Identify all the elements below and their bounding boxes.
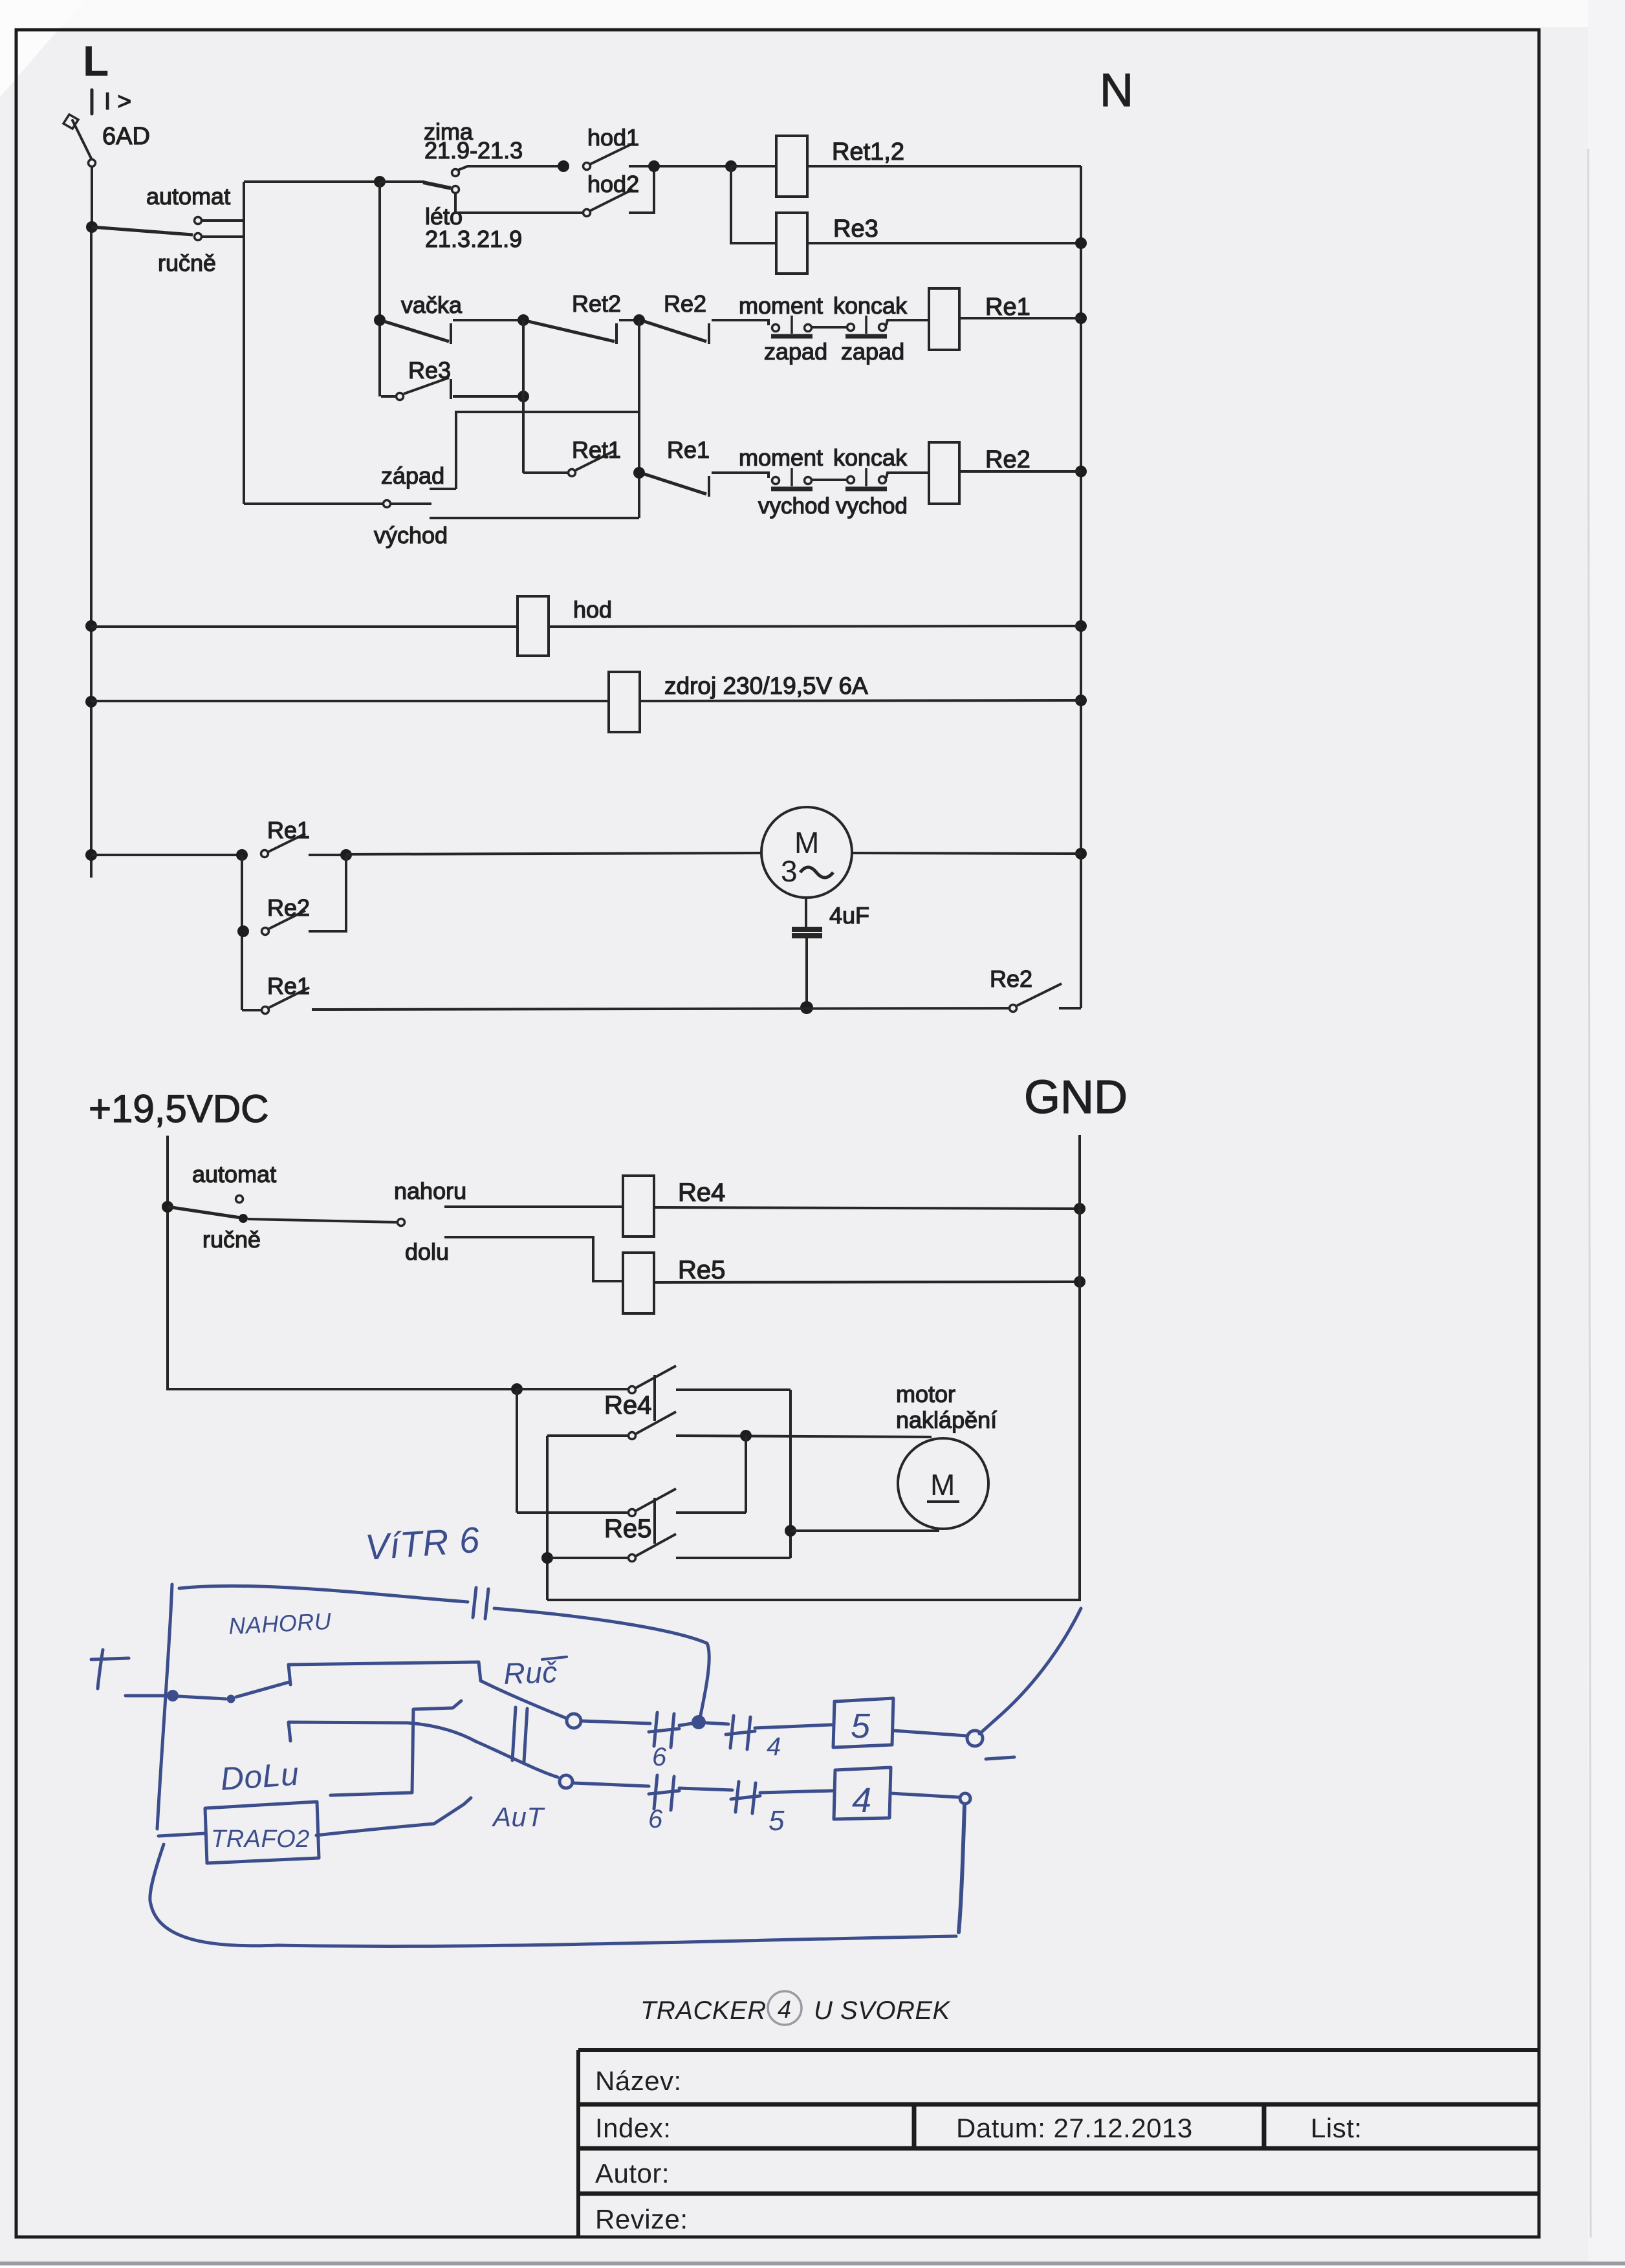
breaker Q1 6AD: [63, 90, 96, 167]
button moment zapad: [772, 325, 780, 332]
wire Re2 coil to N: [959, 470, 1081, 473]
svg-text:Re5: Re5: [604, 1515, 651, 1543]
svg-text:Re1: Re1: [985, 294, 1031, 321]
svg-text:DoLu: DoLu: [219, 1756, 300, 1797]
svg-text:3: 3: [781, 854, 798, 888]
wire blue upper bracket: [289, 1662, 481, 1685]
svg-text:Re2: Re2: [985, 446, 1031, 473]
wire vacka out: [453, 319, 523, 321]
svg-text:vychod: vychod: [836, 493, 908, 519]
wire zima to hod1: [458, 166, 563, 170]
transformer blue coupling bars: [512, 1707, 527, 1762]
wire blue lower row: [573, 1783, 649, 1786]
svg-text:Re3: Re3: [833, 215, 878, 243]
svg-text:Re2: Re2: [990, 966, 1032, 992]
relay blue box 4: [834, 1767, 891, 1819]
button koncak vychod: [847, 477, 855, 484]
svg-text:Ruč: Ruč: [503, 1655, 558, 1690]
relay coil Ret1,2: [776, 136, 807, 197]
motor row: [85, 849, 97, 861]
wire leto to hod2: [455, 193, 583, 213]
svg-text:M: M: [794, 826, 820, 859]
svg-text:Název:: Název:: [595, 2066, 682, 2096]
svg-text:4uF: 4uF: [829, 902, 869, 929]
svg-text:Re1: Re1: [267, 817, 310, 843]
switch automat/rucne (DC selector): [162, 1201, 173, 1213]
wire blue main feeder: [125, 1694, 169, 1698]
wire rucne contact to bus: [202, 235, 244, 238]
switch Re5 contact pair: [516, 1389, 518, 1513]
wire blue zigzag middle: [331, 1701, 461, 1795]
svg-text:zapad: zapad: [841, 338, 904, 365]
wire zapad target: [430, 488, 456, 490]
svg-text:Re5: Re5: [678, 1256, 725, 1284]
title block: [578, 2050, 1539, 2237]
wire Re3 coil to N rail: [807, 242, 1081, 244]
svg-text:Re3: Re3: [408, 357, 451, 383]
switch Re3 contact: [378, 393, 381, 396]
svg-text:5: 5: [769, 1805, 785, 1837]
svg-text:koncak: koncak: [833, 444, 908, 471]
wire GND rail: [1078, 1135, 1081, 1601]
relay blue trafo box: [205, 1802, 319, 1863]
switch Re2 bottom right contact: [1010, 1005, 1017, 1012]
wire Re4 lower in: [547, 1434, 628, 1437]
svg-text:Re2: Re2: [664, 290, 706, 317]
svg-text:21.3.21.9: 21.3.21.9: [425, 226, 522, 252]
svg-text:zapad: zapad: [764, 338, 827, 365]
svg-text:Re2: Re2: [267, 894, 310, 921]
svg-text:východ: východ: [374, 522, 448, 548]
svg-text:Re1: Re1: [267, 973, 310, 999]
svg-text:6AD: 6AD: [102, 123, 150, 150]
svg-text:automat: automat: [146, 183, 230, 210]
text blue labels: [211, 1519, 872, 1853]
svg-text:Revize:: Revize:: [595, 2204, 688, 2234]
switch blue ruc contact: [567, 1714, 581, 1728]
svg-text:Re4: Re4: [678, 1178, 725, 1207]
wire blue descender: [959, 1805, 965, 1932]
wire N rail: [1080, 166, 1082, 1008]
switch automat/rucne (AC selector): [86, 221, 98, 233]
wire blue upper row contact 4: [706, 1723, 728, 1724]
svg-text:hod1: hod1: [587, 124, 639, 151]
svg-text:Ret1: Ret1: [572, 437, 621, 463]
relay coil Re5: [623, 1253, 654, 1313]
wire Re5 lower in: [546, 1436, 549, 1600]
svg-text:nahoru: nahoru: [394, 1178, 466, 1204]
wire blue bottom loop: [150, 1844, 956, 1946]
switch hod1: [558, 160, 569, 172]
svg-text:moment: moment: [739, 444, 823, 471]
svg-text:TRACKER: TRACKER: [640, 1996, 767, 2025]
wire to Re1 coil: [886, 320, 929, 325]
text pencil note: [640, 1991, 952, 2025]
wire Ret12 coil to N rail: [807, 165, 1081, 167]
wire motor to N: [852, 853, 1081, 854]
switch Re1 contact row2: [644, 474, 706, 494]
svg-text:GND: GND: [1024, 1072, 1128, 1123]
node blue plus: [91, 1650, 129, 1689]
svg-text:L: L: [83, 37, 109, 85]
wire automat contact to bus: [202, 219, 244, 222]
svg-text:4: 4: [852, 1781, 872, 1820]
button koncak zapad: [847, 324, 855, 331]
svg-text:ručně: ručně: [202, 1226, 261, 1253]
svg-text:zdroj 230/19,5V 6A: zdroj 230/19,5V 6A: [664, 673, 868, 699]
switch zima/leto selector: [374, 176, 386, 188]
svg-text:6: 6: [648, 1805, 663, 1833]
wire bottom return: [312, 1008, 1009, 1010]
svg-text:dolu: dolu: [405, 1238, 449, 1265]
svg-text:U SVOREK: U SVOREK: [814, 1996, 952, 2025]
wire to Ret12 coil: [731, 165, 776, 167]
wire branch down to Re3 coil: [731, 166, 776, 243]
svg-text:21.9-21.3: 21.9-21.3: [424, 137, 523, 164]
node junction to coils: [725, 160, 737, 172]
wire vertical bus x377: [243, 182, 245, 504]
wire DC plus rail: [168, 1136, 517, 1389]
svg-text:ručně: ručně: [158, 250, 216, 276]
wire top feeder to zima junction: [244, 180, 380, 183]
switch Re4 contact pair: [511, 1383, 523, 1395]
svg-text:západ: západ: [381, 462, 444, 489]
svg-text:TRAFO2: TRAFO2: [211, 1826, 310, 1853]
svg-text:M: M: [930, 1468, 955, 1502]
wire blue top line with coupling marks: [179, 1586, 468, 1602]
svg-text:+19,5VDC: +19,5VDC: [89, 1087, 269, 1130]
switch zapad/vychod selector: [244, 502, 383, 505]
relay coil Re3: [776, 213, 807, 274]
wire bus x374 down: [241, 855, 243, 1010]
svg-text:moment: moment: [739, 292, 823, 319]
wire Re1 coil to N: [959, 317, 1081, 319]
svg-text:NAHORU: NAHORU: [228, 1608, 332, 1639]
wire bus x809 vertical: [522, 320, 525, 473]
relay coil Re1: [929, 288, 959, 350]
svg-text:I >: I >: [104, 88, 131, 114]
node blue junction dot: [692, 1715, 706, 1729]
svg-text:Ret1,2: Ret1,2: [832, 138, 904, 166]
svg-text:vychod: vychod: [758, 493, 830, 519]
svg-text:5: 5: [851, 1707, 871, 1745]
svg-text:6: 6: [652, 1743, 667, 1771]
switch Re1 bottom contact: [242, 1009, 261, 1011]
svg-text:naklápění: naklápění: [896, 1407, 997, 1433]
switch blue aut contact: [560, 1775, 573, 1788]
switch Re2 contact: [644, 321, 706, 341]
svg-text:Ret2: Ret2: [572, 290, 621, 317]
svg-text:List:: List:: [1311, 2113, 1362, 2143]
svg-text:Autor:: Autor:: [595, 2158, 670, 2188]
wire Re4 upper out vertical: [789, 1390, 792, 1558]
svg-text:Re1: Re1: [667, 437, 710, 463]
wire motor top bus: [745, 1436, 747, 1513]
capacitor 4uF: [805, 898, 807, 927]
svg-text:hod2: hod2: [587, 171, 639, 197]
svg-text:vačka: vačka: [401, 292, 463, 318]
svg-text:N: N: [1100, 65, 1133, 116]
wire hod1 out: [629, 165, 731, 167]
switch vacka: [374, 314, 386, 326]
wire to Re2 coil: [886, 473, 929, 478]
wire blue lower bracket: [289, 1722, 476, 1742]
wire motor bottom: [791, 1529, 939, 1532]
wire GND return bottom: [547, 1599, 1080, 1601]
wire hod2 out to junction: [629, 166, 654, 213]
wire blue right curve: [979, 1608, 1081, 1734]
wire to motor: [346, 853, 761, 854]
relay coil hod: [85, 620, 97, 632]
svg-text:koncak: koncak: [833, 292, 908, 319]
wire L rail main: [90, 227, 93, 878]
svg-text:Index:: Index:: [595, 2113, 671, 2143]
switch Re2 motor contact: [237, 925, 249, 937]
button moment vychod: [772, 477, 780, 484]
switch Re1 motor contact: [261, 850, 268, 858]
relay coil Re4: [623, 1176, 654, 1237]
svg-text:Datum: 27.12.2013: Datum: 27.12.2013: [956, 2113, 1193, 2143]
wire L rail top: [91, 166, 93, 227]
wire vychod target: [430, 517, 639, 519]
wire between buttons: [812, 326, 847, 329]
switch Ret1: [523, 471, 568, 474]
wire Re3 contact out: [453, 395, 523, 398]
wire bus x988 vertical: [638, 320, 640, 518]
wire blue upper row to contact 6: [581, 1721, 650, 1723]
wire zapad feeder: [456, 412, 639, 489]
svg-text:automat: automat: [192, 1161, 276, 1187]
svg-text:Re4: Re4: [604, 1391, 651, 1420]
relay coil zdroj 230/19,5V 6A: [85, 696, 97, 707]
relay coil Re2: [929, 442, 959, 504]
svg-text:hod: hod: [573, 596, 612, 623]
svg-text:AuT: AuT: [491, 1802, 545, 1832]
switch hod2: [583, 210, 591, 217]
svg-text:motor: motor: [896, 1381, 955, 1407]
svg-text:VíTR 6: VíTR 6: [364, 1519, 481, 1568]
motor M 3~: [761, 807, 852, 898]
wire blue left vertical: [157, 1584, 172, 1829]
relay blue box 5: [833, 1698, 893, 1747]
switch Ret2: [529, 321, 615, 341]
svg-text:4: 4: [767, 1733, 781, 1761]
svg-text:4: 4: [778, 1996, 792, 2024]
paper background artifacts: [0, 0, 1625, 27]
wire vacka bus vertical x587: [378, 182, 381, 393]
